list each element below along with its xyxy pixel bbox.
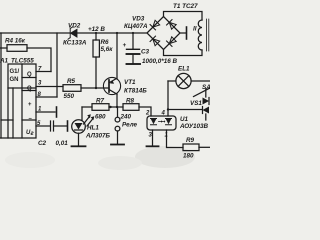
svg-text:Реле: Реле xyxy=(122,122,138,129)
svg-text:TLC555: TLC555 xyxy=(11,58,34,65)
svg-text:550: 550 xyxy=(64,93,75,100)
svg-text:АОУ103В: АОУ103В xyxy=(179,123,209,130)
svg-text:R9: R9 xyxy=(186,137,195,144)
svg-text:АЛ307Б: АЛ307Б xyxy=(85,133,110,140)
svg-text:4: 4 xyxy=(161,111,166,117)
svg-text:1000,0*16 В: 1000,0*16 В xyxy=(142,58,177,65)
svg-text:180: 180 xyxy=(183,153,194,160)
svg-text:Q: Q xyxy=(27,86,32,92)
svg-text:R5: R5 xyxy=(67,78,76,85)
svg-text:+: + xyxy=(28,102,32,108)
svg-text:5,6к: 5,6к xyxy=(101,46,114,53)
svg-text:U1: U1 xyxy=(180,116,189,123)
svg-text:VS1: VS1 xyxy=(190,100,202,107)
svg-text:VD2: VD2 xyxy=(68,23,81,30)
svg-text:КЦ407А: КЦ407А xyxy=(124,23,148,30)
svg-text:А1: А1 xyxy=(0,58,9,65)
svg-text:R8: R8 xyxy=(126,98,135,105)
svg-text:VD3: VD3 xyxy=(132,16,145,23)
svg-text:680: 680 xyxy=(95,114,106,121)
svg-text:240: 240 xyxy=(120,114,132,121)
svg-text:GN: GN xyxy=(10,77,19,83)
svg-text:КС133А: КС133А xyxy=(63,40,87,47)
svg-text:R4 16к: R4 16к xyxy=(5,38,26,45)
svg-text:0,01: 0,01 xyxy=(56,140,69,147)
svg-text:Q: Q xyxy=(27,72,32,78)
svg-text:EL1: EL1 xyxy=(178,66,190,73)
svg-text:VT1: VT1 xyxy=(124,79,136,86)
svg-text:2: 2 xyxy=(145,111,150,117)
svg-text:Т1 ТС27: Т1 ТС27 xyxy=(173,3,198,10)
svg-text:КТ814Б: КТ814Б xyxy=(124,88,147,95)
svg-text:II: II xyxy=(193,26,197,33)
svg-text:SA: SA xyxy=(202,84,210,91)
svg-text:C3: C3 xyxy=(141,49,150,56)
svg-text:HL1: HL1 xyxy=(87,125,99,132)
svg-text:R7: R7 xyxy=(96,98,105,105)
svg-text:G1/: G1/ xyxy=(10,69,20,75)
svg-text:+12 В: +12 В xyxy=(88,26,105,33)
svg-text:R6: R6 xyxy=(101,39,110,46)
svg-text:C2: C2 xyxy=(38,140,47,147)
svg-text:+: + xyxy=(123,42,127,49)
